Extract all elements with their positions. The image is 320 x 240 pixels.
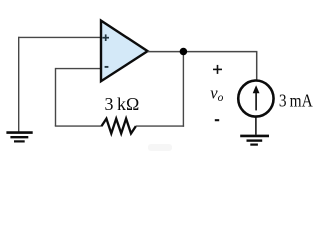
wire: left vertical down to ground <box>18 37 20 132</box>
wire: bottom-left horizontal to resistor <box>55 125 102 127</box>
wire: inverting vertical <box>55 68 57 126</box>
wire: output horizontal <box>148 51 258 53</box>
wire: right vertical down to current source <box>256 52 258 82</box>
current source I1 circle <box>238 81 273 117</box>
current source arrow <box>253 85 260 110</box>
label minus sign of vo <box>215 119 219 121</box>
resistor R1 3 kOhm zigzag <box>102 119 136 134</box>
label plus sign of vo <box>213 65 222 74</box>
wire: stub below current source <box>255 116 257 135</box>
faint artifact bottom center <box>148 144 172 151</box>
svg-text:3 mA: 3 mA <box>279 91 313 111</box>
svg-text:vo: vo <box>210 84 223 104</box>
node: output junction dot <box>180 48 188 56</box>
wire: inverting input horizontal <box>56 68 101 70</box>
op-amp plus input mark <box>102 34 109 41</box>
op-amp minus input mark <box>105 66 109 68</box>
ground G1 <box>6 133 32 142</box>
svg-text:3 kΩ: 3 kΩ <box>105 94 140 114</box>
ground G2 <box>240 136 269 145</box>
wire: feedback vertical up to output node <box>182 52 184 127</box>
wire: bottom-right horizontal from resistor <box>136 125 184 127</box>
op-amp U1 triangle <box>101 21 148 82</box>
wire: noninverting input horizontal <box>19 36 101 38</box>
